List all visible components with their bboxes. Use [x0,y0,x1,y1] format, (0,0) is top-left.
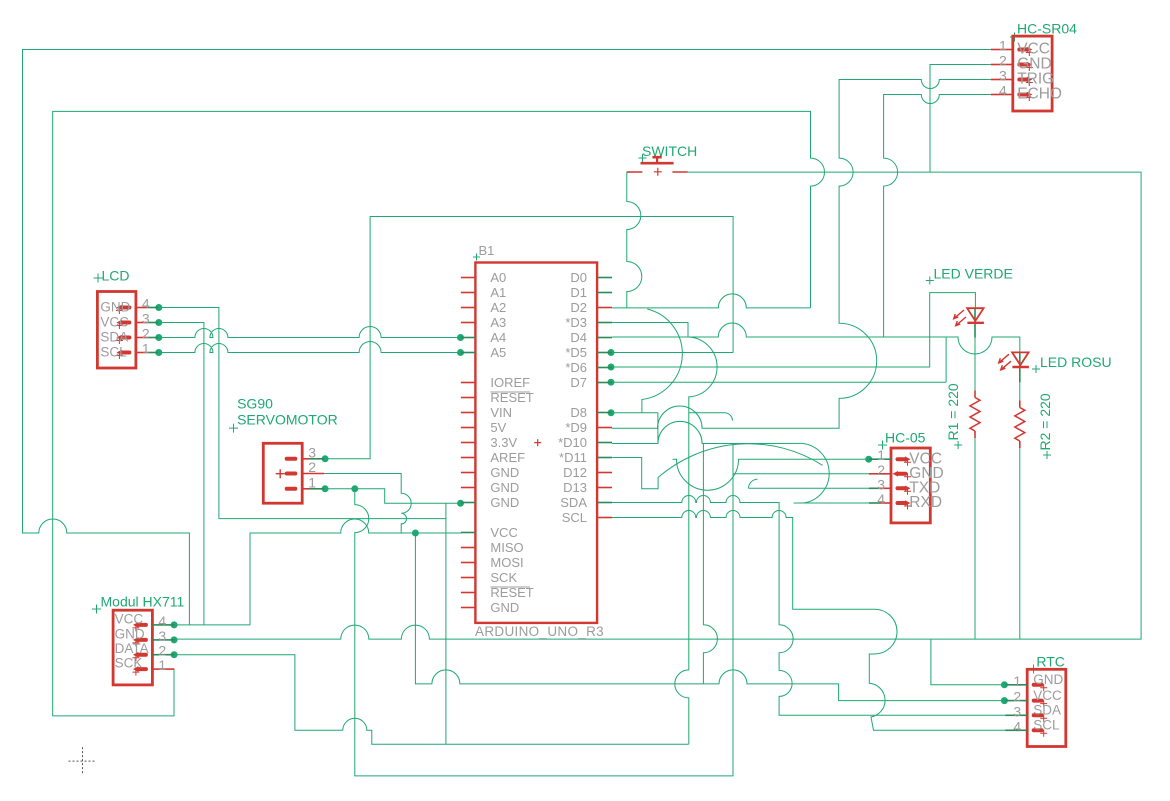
wire LED VERDE to R1 [974,338,976,391]
wire Arduino SDA to RTC SDA [612,496,1005,716]
svg-text:SCK: SCK [490,570,517,585]
svg-text:SWITCH: SWITCH [642,143,697,159]
svg-text:*D5: *D5 [565,345,587,360]
svg-text:ARDUINO_UNO_R3: ARDUINO_UNO_R3 [475,624,604,639]
svg-text:SDA: SDA [560,495,587,510]
junction RTC pin2 [1001,697,1008,704]
junction HX711 DATA [171,651,178,658]
svg-text:D4: D4 [570,330,587,345]
svg-text:ECHO: ECHO [1017,86,1062,103]
wire LCD GND down and right [159,308,446,519]
junction LCD GND [155,304,162,311]
svg-text:1: 1 [142,341,150,357]
wire HX711 DATA routing [174,655,689,745]
wire switch left contact to D2 net [627,172,642,308]
wire HC-05 VCC pin1 row [673,459,870,490]
wire Arduino D7 row [612,381,947,383]
wire R2 to GND bus [1019,448,1021,639]
svg-text:R2 = 220: R2 = 220 [1037,393,1053,450]
wire Arduino D6 to LED VERDE [612,293,976,367]
svg-text:3: 3 [308,444,316,460]
svg-text:1: 1 [158,657,166,673]
junction D7 [608,379,615,386]
svg-text:GND: GND [115,626,145,641]
svg-text:4: 4 [999,83,1007,99]
svg-text:GND: GND [490,480,519,495]
svg-text:*D11: *D11 [559,450,587,465]
junction A5 [457,349,464,356]
svg-text:R1 = 220: R1 = 220 [945,383,961,440]
svg-text:A1: A1 [490,285,506,300]
wire SG90 pin3 to D5 [324,217,733,459]
svg-text:AREF: AREF [490,450,525,465]
wire GND bus to RTC pin1 [931,639,1005,685]
wire Arduino D5 row [612,352,733,354]
wire HC-05 pin1 down to VCC line [703,459,717,684]
svg-text:5V: 5V [490,420,506,435]
svg-text:SG90: SG90 [237,396,273,412]
junction D6 [608,364,615,371]
connector HC-SR04 [991,21,1077,111]
connector HC-05 [869,430,944,523]
svg-text:A4: A4 [490,330,506,345]
svg-text:3: 3 [158,628,166,644]
svg-text:MISO: MISO [490,540,523,555]
junction SG90 pin3 [322,455,329,462]
junction D5 [608,349,615,356]
wire LCD SCL to A5 [159,342,461,353]
svg-text:SERVOMOTOR: SERVOMOTOR [237,412,338,428]
svg-text:VCC: VCC [490,525,517,540]
LED LED ROSU [999,352,1112,382]
wire branch to LED ROSU [946,337,1020,354]
svg-text:3: 3 [142,311,150,327]
wire SG90 pin2 to VCC line [324,474,411,534]
svg-text:DATA: DATA [115,641,149,656]
svg-text:*D3: *D3 [565,315,587,330]
svg-text:VCC: VCC [1033,688,1062,703]
svg-text:1: 1 [999,38,1007,54]
junction RTC pin1 [1001,681,1008,688]
svg-text:2: 2 [142,326,150,342]
wire GND bottom bus SG90 to HC-05 pin2 [355,443,733,776]
svg-text:VIN: VIN [490,405,512,420]
svg-text:3.3V: 3.3V [490,435,517,450]
wire HC-SR04 GND pin2 down to GND bus [930,65,991,173]
svg-text:SDA: SDA [1033,703,1061,718]
wire HX711 VCC to Arduino VCC pin [250,519,462,625]
connector SG90 SERVOMOTOR [229,396,338,504]
svg-text:HC-05: HC-05 [885,430,926,446]
wire Arduino D2 row to SCK vertical [612,294,810,308]
svg-text:SCK: SCK [115,656,143,671]
wire Arduino D11 staircase with long hop [612,444,822,489]
svg-text:1: 1 [877,447,885,463]
svg-text:D8: D8 [570,405,587,420]
wire HX711 SCK long loop [53,111,825,716]
wire Arduino GND row to SG90 pin1 [324,489,460,504]
svg-text:A0: A0 [490,270,506,285]
svg-text:4: 4 [142,296,150,312]
svg-text:VCC: VCC [100,315,129,330]
wire HC-SR04 ECHO down to D4 line [884,95,991,338]
svg-text:*D9: *D9 [565,420,587,435]
junction LCD VCC [155,319,162,326]
svg-text:D0: D0 [570,270,587,285]
svg-text:SCL: SCL [1033,718,1060,733]
svg-text:GND: GND [490,465,519,480]
connector RTC [1005,654,1066,747]
junction LCD SCL [155,349,162,356]
wire D8 D10 link and east to RXD feed [612,413,802,459]
junction Arduino VCC [412,530,419,537]
svg-text:RXD: RXD [909,494,942,511]
svg-text:D12: D12 [563,465,587,480]
svg-text:A3: A3 [490,315,506,330]
svg-text:GND: GND [490,495,519,510]
svg-text:SDA: SDA [100,330,128,345]
wire HX711 VCC row [174,624,250,626]
svg-text:1: 1 [1013,673,1021,689]
svg-text:GND: GND [490,600,519,615]
svg-text:LED VERDE: LED VERDE [934,266,1013,282]
wire to HC-05 RXD with hop over pins1-3 [794,443,830,503]
wire stub on D8 level [689,413,733,421]
svg-text:VCC: VCC [115,611,144,626]
svg-text:RTC: RTC [1036,654,1065,670]
svg-text:LED ROSU: LED ROSU [1040,354,1112,370]
wire VCC branch to RTC VCC [415,533,1005,701]
svg-text:A5: A5 [490,345,506,360]
svg-text:D13: D13 [563,480,587,495]
svg-text:A2: A2 [490,300,506,315]
svg-text:D1: D1 [570,285,587,300]
junction Arduino GND [457,500,464,507]
wire HC-05 GND pin2 row [733,473,869,475]
wire R1 to GND bus [974,438,976,639]
wire Arduino D3 jog [612,323,688,338]
svg-text:3: 3 [877,476,885,492]
wire VCC HC-SR04 pin1 to HX711 VCC [23,50,991,625]
svg-text:3: 3 [1013,703,1021,719]
svg-text:*D10: *D10 [558,435,587,450]
connector LCD [94,268,158,369]
big arc D2 to D8 row [642,309,682,413]
svg-text:2: 2 [308,459,316,475]
resistor R1 [945,383,980,449]
junction LCD SDA [155,334,162,341]
wire Arduino D9 to HC-SR04 TRIG with giant hop [612,80,991,429]
svg-text:2: 2 [1013,689,1021,705]
connector Modul HX711 [92,594,185,685]
svg-text:D2: D2 [570,300,587,315]
resistor R2 [1015,393,1053,459]
svg-text:B1: B1 [479,243,495,258]
junction SG90 pin1 b [351,485,358,492]
svg-text:4: 4 [1013,718,1021,734]
svg-text:2: 2 [999,53,1007,69]
svg-text:GND: GND [1033,672,1063,687]
svg-text:IOREF: IOREF [490,375,530,390]
svg-text:4: 4 [158,613,166,629]
junction SG90 pin1 a [322,485,329,492]
svg-text:SCL: SCL [100,345,127,360]
svg-text:SCL: SCL [562,510,587,525]
junction HX711 VCC [171,621,178,628]
sheet origin crosshair [69,747,97,775]
wire HC-05 RXD pin4 row [803,502,869,504]
wire LED ROSU to R2 [1019,382,1021,400]
wire LCD SDA to A4 [159,327,461,338]
junction HX711 GND [171,636,178,643]
wire Arduino SCL to RTC SCL [612,511,1005,731]
svg-text:GND: GND [100,300,130,315]
svg-text:MOSI: MOSI [490,555,523,570]
wire Arduino D8 row [612,412,658,414]
wire Arduino D4 row to right [612,323,946,382]
wire LCD VCC down to HX711 VCC row [159,323,204,625]
junction D8 [608,409,615,416]
wire HC-05 TXD pin3 row [749,479,870,488]
svg-text:*D6: *D6 [565,360,587,375]
svg-text:4: 4 [877,491,885,507]
svg-text:3: 3 [999,68,1007,84]
switch SWITCH [627,143,697,176]
LED LED VERDE [926,266,1013,338]
wire GND row vertical to DATA line [445,503,447,744]
svg-text:Modul HX711: Modul HX711 [101,594,185,610]
vertical wire D4 net down to DATA line [675,337,717,744]
svg-text:LCD: LCD [102,268,130,284]
junction A4 [457,334,464,341]
svg-text:D7: D7 [570,375,587,390]
svg-text:1: 1 [308,474,316,490]
IC B1 ARDUINO_UNO_R3 [461,243,612,639]
wire GND long bus to switch [174,172,1141,639]
junction HC-05 pin1 [865,456,872,463]
svg-text:HC-SR04: HC-SR04 [1017,21,1077,37]
